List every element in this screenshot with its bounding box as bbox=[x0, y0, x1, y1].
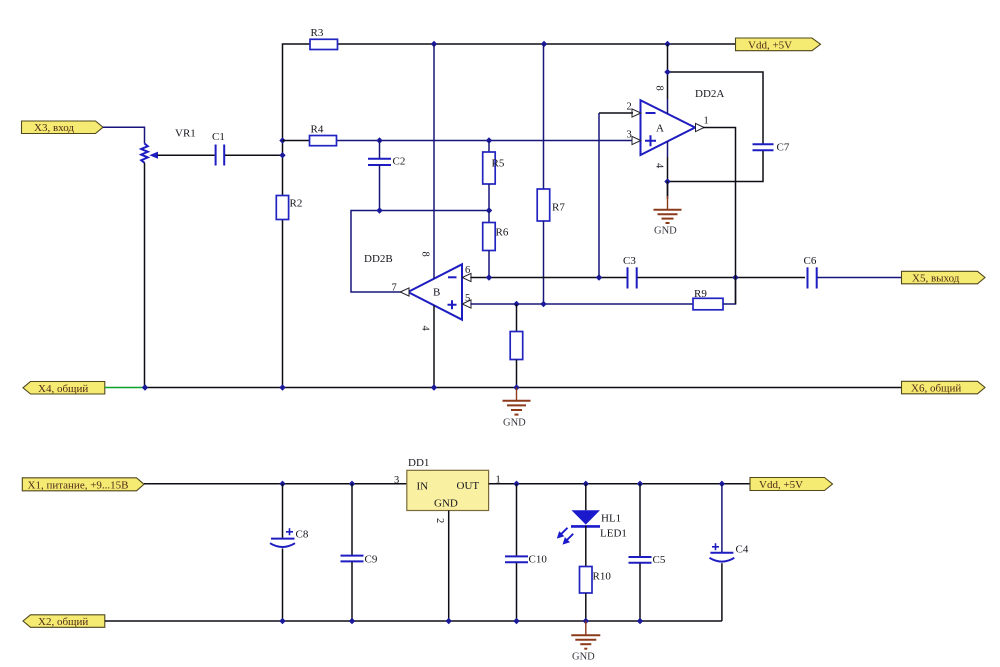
node loop bottom junction bbox=[664, 178, 670, 184]
wire pin2 line bbox=[599, 113, 633, 278]
wire bottom rail bbox=[105, 620, 722, 622]
wire C6 to X5 flag bbox=[818, 277, 902, 279]
svg-text:DD1: DD1 bbox=[408, 457, 429, 469]
node C5 bottom junction bbox=[637, 618, 643, 624]
ground GND1 below A bbox=[654, 182, 682, 237]
svg-text:GND: GND bbox=[654, 226, 677, 237]
capacitor C2 bbox=[368, 141, 405, 211]
svg-text:8: 8 bbox=[654, 86, 665, 91]
wire top Vdd rail bbox=[283, 44, 736, 141]
pin 8 stem of A bbox=[654, 44, 668, 114]
svg-text:2: 2 bbox=[627, 102, 632, 113]
variable resistor VR1 zigzag bbox=[141, 128, 196, 163]
node C10 bottom junction bbox=[513, 618, 519, 624]
capacitor C7 bbox=[753, 142, 790, 154]
pin 4 stem of A bbox=[654, 141, 668, 199]
svg-text:C6: C6 bbox=[804, 255, 817, 267]
svg-text:X3, вход: X3, вход bbox=[34, 122, 74, 134]
pin 7 arrow (B output) bbox=[392, 283, 410, 297]
resistor R6 bbox=[483, 211, 509, 278]
node R7 bottom junction bbox=[540, 301, 546, 307]
wire C7 decoupling loop bbox=[668, 72, 764, 182]
pin 8 stem of B bbox=[420, 44, 435, 279]
wire DD2B feedback loop bbox=[351, 211, 489, 293]
node C9 top junction bbox=[349, 481, 355, 487]
svg-text:3: 3 bbox=[394, 475, 399, 486]
svg-text:X6, общий: X6, общий bbox=[911, 383, 961, 395]
node R8 top junction bbox=[513, 301, 519, 307]
pin 2 stem of DD1 bbox=[434, 511, 449, 622]
LED light arrows bbox=[557, 528, 573, 545]
svg-text:VR1: VR1 bbox=[175, 128, 196, 140]
svg-text:C9: C9 bbox=[365, 554, 378, 566]
node pin2-drop junction bbox=[596, 274, 602, 280]
pin 5 arrow (B non-inverting input) bbox=[462, 293, 471, 308]
capacitor C4 electrolytic bbox=[710, 484, 749, 621]
node output-drop junction bbox=[732, 274, 738, 280]
ground GND2 below rail bbox=[503, 388, 531, 429]
wire R4 line bbox=[283, 140, 311, 142]
resistor R4 bbox=[310, 124, 337, 146]
flag X6,общий bbox=[902, 381, 986, 394]
svg-text:R2: R2 bbox=[290, 198, 303, 210]
svg-text:C2: C2 bbox=[393, 156, 406, 168]
node rail-A8 junction bbox=[664, 41, 670, 47]
svg-text:4: 4 bbox=[654, 163, 665, 169]
resistor R3 bbox=[310, 27, 338, 50]
svg-text:A: A bbox=[656, 123, 664, 135]
flag Vdd,+5V (bottom) bbox=[750, 478, 833, 492]
node C9 bottom junction bbox=[349, 618, 355, 624]
node rail-B4 junction bbox=[431, 384, 437, 390]
pin 3 arrow (A non-inverting input) bbox=[627, 130, 641, 145]
svg-text:X4, общий: X4, общий bbox=[38, 383, 88, 395]
svg-text:5: 5 bbox=[465, 293, 470, 304]
node rail-R8 junction bbox=[513, 384, 519, 390]
svg-text:R4: R4 bbox=[311, 124, 324, 136]
node DD1-GND bottom junction bbox=[446, 618, 452, 624]
capacitor C8 electrolytic bbox=[270, 484, 309, 621]
pin 4 stem of B bbox=[420, 306, 435, 388]
node R5/R6 junction bbox=[486, 207, 492, 213]
wire C3 to X5 line bbox=[638, 277, 806, 279]
svg-text:R7: R7 bbox=[552, 202, 565, 214]
svg-text:3: 3 bbox=[627, 130, 632, 141]
svg-text:2: 2 bbox=[434, 518, 445, 523]
flag X2,общий bbox=[23, 615, 105, 628]
wire X3 to VR1 bbox=[103, 127, 145, 143]
svg-text:4: 4 bbox=[420, 326, 431, 332]
resistor R9 bbox=[693, 278, 736, 310]
svg-text:6: 6 bbox=[465, 265, 470, 276]
svg-text:OUT: OUT bbox=[457, 480, 480, 492]
svg-text:7: 7 bbox=[392, 283, 397, 294]
ground GND3 below LED branch bbox=[571, 621, 600, 663]
capacitor C10 bbox=[505, 484, 547, 621]
wire X4 green segment bbox=[105, 387, 145, 389]
svg-text:DD2A: DD2A bbox=[695, 88, 724, 100]
node R4 left junction bbox=[279, 137, 285, 143]
svg-text:HL1: HL1 bbox=[601, 513, 621, 525]
svg-text:R5: R5 bbox=[492, 158, 505, 170]
svg-text:Vdd, +5V: Vdd, +5V bbox=[748, 40, 792, 52]
node LED top junction bbox=[583, 481, 589, 487]
svg-text:C8: C8 bbox=[296, 529, 309, 541]
wire common rail bbox=[145, 387, 902, 389]
svg-text:C7: C7 bbox=[777, 142, 790, 154]
wiper arrow of VR1 bbox=[149, 152, 158, 159]
capacitor C1 bbox=[212, 131, 225, 166]
svg-text:8: 8 bbox=[420, 252, 431, 257]
capacitor C3 bbox=[623, 255, 637, 289]
wire R4 line navy to pin3 bbox=[336, 140, 633, 142]
pin 6 arrow (B inverting input) bbox=[462, 265, 471, 282]
svg-text:1: 1 bbox=[704, 116, 709, 127]
svg-text:R6: R6 bbox=[496, 227, 509, 239]
svg-text:R9: R9 bbox=[694, 288, 707, 300]
node C8 top junction bbox=[279, 481, 285, 487]
flag Vdd,+5V (top) bbox=[736, 38, 821, 52]
node rail-R2 junction bbox=[279, 384, 285, 390]
svg-text:X1, питание, +9...15В: X1, питание, +9...15В bbox=[28, 479, 129, 491]
node R5 top junction bbox=[486, 137, 492, 143]
wire pin6 line to C3 bbox=[470, 277, 626, 279]
node rail-VR1 junction bbox=[142, 384, 148, 390]
svg-text:C5: C5 bbox=[653, 554, 666, 566]
flag X4,общий bbox=[23, 382, 105, 395]
op-amp DD2B (unit B) bbox=[364, 253, 462, 320]
svg-text:IN: IN bbox=[417, 481, 429, 493]
resistor R2 bbox=[276, 196, 302, 220]
svg-text:X2, общий: X2, общий bbox=[38, 616, 88, 628]
wire R2 branch vertical bbox=[282, 141, 284, 388]
svg-text:GND: GND bbox=[503, 418, 526, 429]
svg-text:Vdd, +5V: Vdd, +5V bbox=[759, 479, 803, 491]
wire A output drop bbox=[703, 128, 736, 305]
svg-text:X5, выход: X5, выход bbox=[912, 273, 960, 285]
svg-text:GND: GND bbox=[572, 652, 595, 663]
node R6 bottom junction bbox=[486, 274, 492, 280]
wire left vertical X3 branch down bbox=[144, 163, 146, 388]
flag X1,питание bbox=[22, 478, 144, 492]
resistor R8 (unlabeled) bbox=[510, 304, 523, 388]
node rail-B8 junction bbox=[431, 41, 437, 47]
node C2 bottom junction bbox=[376, 207, 382, 213]
svg-text:GND: GND bbox=[434, 498, 458, 510]
node C1/R2 junction bbox=[279, 152, 285, 158]
capacitor C6 bbox=[804, 255, 817, 289]
node loop top junction bbox=[664, 69, 670, 75]
node C5 top junction bbox=[637, 481, 643, 487]
node R10 bottom junction bbox=[583, 618, 589, 624]
wire VR1 arrow to C1 bbox=[158, 154, 215, 156]
wire power rail right bbox=[489, 483, 750, 485]
node C2 top junction bbox=[376, 137, 382, 143]
resistor R10 bbox=[580, 567, 612, 622]
wire C1 to node bbox=[225, 154, 283, 156]
svg-text:R3: R3 bbox=[311, 27, 324, 39]
svg-text:C10: C10 bbox=[529, 554, 548, 566]
svg-text:LED1: LED1 bbox=[600, 528, 627, 540]
resistor R5 bbox=[483, 141, 505, 211]
capacitor C9 bbox=[341, 484, 378, 621]
resistor R7 bbox=[537, 44, 565, 304]
pin 2 arrow (A inverting input) bbox=[627, 102, 641, 118]
LED HL1 bbox=[571, 484, 627, 567]
wire pin5 line bbox=[470, 303, 693, 305]
pin 1 arrow (A output) bbox=[696, 116, 709, 132]
regulator DD1 bbox=[394, 457, 501, 511]
flag X5,выход bbox=[902, 271, 986, 284]
svg-text:C1: C1 bbox=[212, 131, 225, 143]
node C8 bottom junction bbox=[279, 618, 285, 624]
node rail-R7 junction bbox=[541, 41, 547, 47]
svg-text:C4: C4 bbox=[736, 544, 749, 556]
svg-text:B: B bbox=[433, 287, 440, 299]
flag X3,вход bbox=[22, 121, 104, 134]
wire power rail left bbox=[144, 483, 407, 485]
svg-text:DD2B: DD2B bbox=[364, 253, 393, 265]
svg-text:R10: R10 bbox=[593, 571, 612, 583]
svg-text:C3: C3 bbox=[623, 255, 636, 267]
op-amp DD2A (unit A) bbox=[641, 88, 725, 155]
capacitor C5 bbox=[629, 484, 666, 621]
node C4 top junction bbox=[719, 481, 725, 487]
node C10 top junction bbox=[513, 481, 519, 487]
